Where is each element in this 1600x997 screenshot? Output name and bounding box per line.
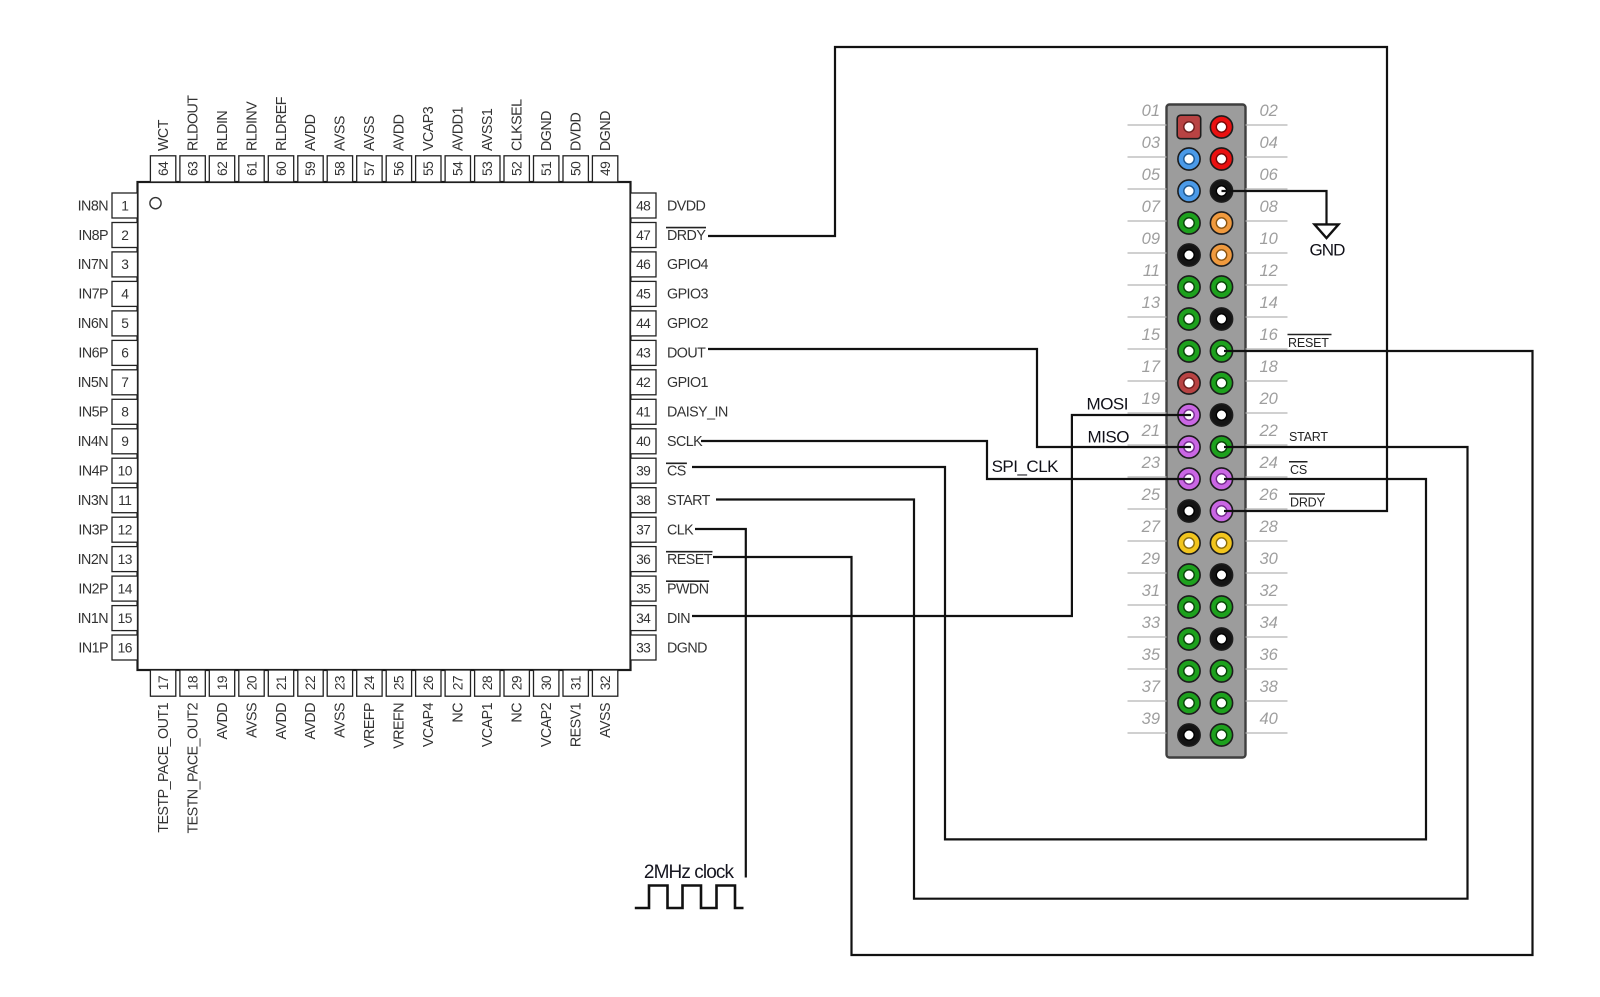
U1 pin 3 box	[112, 252, 138, 277]
svg-text:32: 32	[598, 676, 613, 690]
svg-text:48: 48	[636, 198, 651, 213]
svg-text:AVSS: AVSS	[244, 703, 260, 738]
wire DOUT/MISO: U1 pin 43 to J1 pin 21	[708, 349, 1191, 447]
header pin 27	[1178, 532, 1200, 554]
header pin 33	[1178, 628, 1200, 650]
svg-text:16: 16	[1260, 326, 1279, 344]
svg-text:39: 39	[1142, 710, 1160, 728]
net label DRDY (J1 pin 26)	[1289, 494, 1325, 510]
svg-text:3: 3	[121, 257, 129, 272]
U1 pin 24 box	[357, 670, 382, 696]
svg-text:46: 46	[636, 257, 651, 272]
U1 pin 32 box	[592, 670, 617, 696]
U1 pin 2 box	[112, 223, 138, 248]
svg-text:DGND: DGND	[539, 111, 555, 151]
U1 pin 16 box	[112, 635, 138, 660]
U1 pin 1 box	[112, 193, 138, 218]
U1 pin 27 box	[445, 670, 470, 696]
U1 pin 30 box	[534, 670, 559, 696]
svg-text:GPIO2: GPIO2	[667, 316, 709, 332]
U1 pin-1 indicator circle	[150, 198, 161, 209]
U1 pin 47 label DRDY	[666, 228, 706, 244]
U1 pin 6 box	[112, 340, 138, 365]
svg-text:21: 21	[1141, 422, 1160, 440]
svg-text:29: 29	[510, 675, 525, 690]
U1 pin 28 box	[475, 670, 500, 696]
svg-text:49: 49	[598, 161, 613, 176]
svg-text:RESET: RESET	[667, 552, 713, 568]
svg-text:22: 22	[1259, 422, 1278, 440]
header pin 35	[1178, 660, 1200, 682]
U1 pin 21 box	[268, 670, 293, 696]
header pin 03	[1178, 148, 1200, 170]
header pin 04	[1210, 148, 1232, 170]
header pin 13	[1178, 308, 1200, 330]
svg-text:19: 19	[215, 675, 230, 690]
svg-text:IN1N: IN1N	[78, 611, 109, 627]
svg-text:53: 53	[480, 161, 495, 176]
svg-text:61: 61	[244, 162, 259, 176]
svg-text:AVSS: AVSS	[333, 703, 349, 738]
U1 pin 36 box	[631, 547, 657, 572]
svg-text:IN6P: IN6P	[78, 346, 108, 362]
wire CLK: U1 pin 37 to clock source	[695, 529, 746, 878]
svg-text:7: 7	[121, 375, 128, 390]
svg-text:02: 02	[1260, 102, 1278, 120]
svg-text:DRDY: DRDY	[667, 228, 706, 244]
header pin 14	[1210, 308, 1232, 330]
svg-text:44: 44	[636, 316, 651, 331]
U1 pin 5 box	[112, 311, 138, 336]
svg-text:VREFN: VREFN	[392, 703, 408, 749]
svg-text:AVDD: AVDD	[303, 114, 319, 151]
U1 pin 15 box	[112, 606, 138, 631]
svg-text:AVDD1: AVDD1	[451, 107, 467, 151]
U1 pin 52 box	[504, 156, 529, 182]
svg-text:24: 24	[1259, 454, 1278, 472]
svg-text:38: 38	[1260, 678, 1279, 696]
header pin 17	[1178, 372, 1200, 394]
svg-text:07: 07	[1142, 198, 1161, 216]
svg-text:15: 15	[1142, 326, 1161, 344]
svg-text:DIN: DIN	[667, 611, 690, 627]
svg-text:45: 45	[636, 287, 651, 302]
svg-text:06: 06	[1260, 166, 1279, 184]
U1 pin 55 box	[416, 156, 441, 182]
svg-text:AVSS: AVSS	[362, 116, 378, 151]
svg-text:28: 28	[480, 675, 495, 690]
U1 pin 63 box	[180, 156, 205, 182]
U1 pin 36 label RESET	[666, 552, 713, 568]
U1 pin 53 box	[475, 156, 500, 182]
header pin 19	[1178, 404, 1200, 426]
svg-text:DAISY_IN: DAISY_IN	[667, 405, 728, 421]
svg-text:IN5P: IN5P	[78, 405, 108, 421]
header pin 23	[1178, 468, 1200, 490]
U1 pin 47 box	[631, 223, 657, 248]
svg-text:34: 34	[1260, 614, 1278, 632]
svg-text:RESV1: RESV1	[569, 702, 585, 747]
svg-text:33: 33	[636, 640, 651, 655]
svg-text:AVSS: AVSS	[598, 703, 614, 738]
U1 pin 64 box	[150, 156, 175, 182]
header pin 18	[1210, 372, 1232, 394]
U1 pin 44 box	[631, 311, 657, 336]
U1 pin 11 box	[112, 488, 138, 513]
U1 pin 45 box	[631, 281, 657, 306]
svg-text:32: 32	[1260, 582, 1278, 600]
svg-text:10: 10	[118, 464, 133, 479]
header pin 40	[1210, 724, 1232, 746]
U1 pin 42 box	[631, 370, 657, 395]
U1 pin 19 box	[209, 670, 234, 696]
U1 pin 49 box	[592, 156, 617, 182]
IC U1 ADS1298 body	[138, 182, 631, 670]
svg-text:1: 1	[121, 198, 128, 213]
header pin 21	[1178, 436, 1200, 458]
svg-text:IN8N: IN8N	[78, 198, 109, 214]
svg-text:26: 26	[1259, 486, 1279, 504]
svg-text:40: 40	[1260, 710, 1279, 728]
svg-text:35: 35	[1142, 646, 1161, 664]
svg-text:CS: CS	[667, 464, 686, 480]
svg-text:TESTN_PACE_OUT2: TESTN_PACE_OUT2	[185, 702, 201, 833]
svg-text:AVDD: AVDD	[303, 703, 319, 740]
svg-text:IN3P: IN3P	[78, 523, 108, 539]
svg-text:5: 5	[121, 316, 129, 331]
svg-text:MOSI: MOSI	[1087, 394, 1128, 413]
svg-text:RLDIN: RLDIN	[215, 111, 231, 151]
svg-text:34: 34	[636, 611, 651, 626]
svg-text:NC: NC	[510, 703, 526, 723]
svg-text:GPIO3: GPIO3	[667, 287, 709, 303]
svg-text:IN4N: IN4N	[78, 434, 109, 450]
svg-text:38: 38	[636, 493, 651, 508]
wire START: U1 pin 38 to J1 pin 22	[716, 447, 1468, 899]
header pin 26	[1210, 500, 1232, 522]
svg-text:DVDD: DVDD	[667, 198, 706, 214]
svg-text:05: 05	[1142, 166, 1161, 184]
svg-text:2: 2	[121, 228, 128, 243]
U1 pin 51 box	[534, 156, 559, 182]
header pin 20	[1210, 404, 1232, 426]
U1 pin 58 box	[327, 156, 352, 182]
svg-text:4: 4	[121, 287, 129, 302]
wire DRDY: U1 pin 47 to J1 pin 26	[708, 47, 1387, 511]
svg-text:35: 35	[636, 581, 651, 596]
U1 pin 22 box	[298, 670, 323, 696]
svg-text:DOUT: DOUT	[667, 346, 706, 362]
svg-text:62: 62	[215, 162, 230, 176]
wire RESET: U1 pin 36 to J1 pin 16	[713, 351, 1533, 955]
svg-text:19: 19	[1142, 390, 1160, 408]
svg-text:18: 18	[1260, 358, 1279, 376]
svg-text:25: 25	[1141, 486, 1161, 504]
svg-text:27: 27	[1141, 518, 1161, 536]
svg-text:24: 24	[362, 675, 377, 690]
svg-text:50: 50	[569, 161, 584, 176]
U1 pin 12 box	[112, 517, 138, 542]
header pin 25	[1178, 500, 1200, 522]
svg-text:42: 42	[636, 375, 650, 390]
svg-text:03: 03	[1142, 134, 1161, 152]
svg-text:01: 01	[1142, 102, 1160, 120]
header pin 39	[1178, 724, 1200, 746]
U1 pin 13 box	[112, 547, 138, 572]
header pin 28	[1210, 532, 1232, 554]
svg-text:17: 17	[156, 676, 171, 690]
svg-text:IN6N: IN6N	[78, 316, 109, 332]
svg-text:MISO: MISO	[1088, 427, 1130, 446]
svg-text:DVDD: DVDD	[569, 112, 585, 151]
svg-text:09: 09	[1142, 230, 1160, 248]
svg-text:9: 9	[121, 434, 129, 449]
svg-text:59: 59	[303, 161, 318, 176]
svg-text:36: 36	[1260, 646, 1279, 664]
svg-text:IN1P: IN1P	[78, 640, 108, 656]
header pin 36	[1210, 660, 1232, 682]
svg-text:23: 23	[333, 675, 348, 690]
svg-text:37: 37	[1142, 678, 1161, 696]
svg-text:28: 28	[1259, 518, 1279, 536]
svg-text:AVDD: AVDD	[392, 114, 408, 151]
svg-text:26: 26	[421, 675, 436, 690]
ground symbol GND	[1309, 224, 1345, 259]
svg-text:60: 60	[274, 161, 289, 176]
header pin 30	[1210, 564, 1232, 586]
svg-text:SCLK: SCLK	[667, 434, 703, 450]
svg-text:37: 37	[636, 523, 650, 538]
svg-text:47: 47	[636, 228, 650, 243]
U1 pin 34 box	[631, 606, 657, 631]
svg-text:RESET: RESET	[1288, 336, 1329, 350]
svg-text:CLKSEL: CLKSEL	[510, 99, 526, 151]
U1 pin 23 box	[327, 670, 352, 696]
U1 pin 61 box	[239, 156, 264, 182]
U1 pin 26 box	[416, 670, 441, 696]
svg-text:IN5N: IN5N	[78, 375, 109, 391]
svg-text:11: 11	[1143, 262, 1160, 280]
header pin 09	[1178, 244, 1200, 266]
svg-text:14: 14	[1260, 294, 1278, 312]
svg-text:39: 39	[636, 464, 651, 479]
svg-text:RLDINV: RLDINV	[244, 101, 260, 151]
svg-text:58: 58	[333, 161, 348, 176]
header pin 29	[1178, 564, 1200, 586]
U1 pin 35 box	[631, 576, 657, 601]
svg-text:63: 63	[185, 161, 200, 176]
U1 pin 35 label PWDN	[666, 581, 709, 597]
wire GND: J1 pin 06 to ground	[1222, 191, 1327, 224]
net label CS (J1 pin 24)	[1289, 462, 1308, 477]
svg-text:15: 15	[118, 611, 133, 626]
U1 pin 39 label CS	[666, 463, 687, 479]
svg-text:20: 20	[1259, 390, 1279, 408]
svg-text:SPI_CLK: SPI_CLK	[992, 457, 1060, 476]
header pin 15	[1178, 340, 1200, 362]
header pin 11	[1178, 276, 1200, 298]
svg-text:56: 56	[392, 161, 407, 176]
svg-text:IN2P: IN2P	[78, 581, 108, 597]
U1 pin 18 box	[180, 670, 205, 696]
U1 pin 9 box	[112, 429, 138, 454]
svg-text:12: 12	[118, 523, 132, 538]
svg-text:VCAP2: VCAP2	[539, 702, 555, 747]
svg-text:14: 14	[118, 581, 133, 596]
svg-text:IN3N: IN3N	[78, 493, 109, 509]
svg-text:TESTP_PACE_OUT1: TESTP_PACE_OUT1	[156, 702, 172, 832]
svg-text:27: 27	[451, 676, 466, 690]
header pin 06	[1210, 180, 1232, 202]
svg-text:12: 12	[1260, 262, 1278, 280]
header pin 10	[1210, 244, 1232, 266]
svg-text:40: 40	[636, 434, 651, 449]
svg-text:25: 25	[392, 675, 407, 690]
svg-text:AVDD: AVDD	[215, 703, 231, 740]
svg-text:10: 10	[1260, 230, 1279, 248]
U1 pin 54 box	[445, 156, 470, 182]
svg-text:START: START	[1289, 430, 1328, 444]
wire CS: U1 pin 39 to J1 pin 24	[692, 467, 1426, 839]
svg-text:55: 55	[421, 161, 436, 176]
svg-text:VREFP: VREFP	[362, 703, 378, 748]
svg-text:8: 8	[121, 405, 129, 420]
U1 pin 57 box	[357, 156, 382, 182]
svg-text:17: 17	[1142, 358, 1161, 376]
svg-text:16: 16	[118, 640, 133, 655]
U1 pin 8 box	[112, 399, 138, 424]
U1 pin 33 box	[631, 635, 657, 660]
svg-text:51: 51	[539, 162, 554, 176]
GPIO header J1 body	[1167, 105, 1246, 758]
header pin 16	[1210, 340, 1232, 362]
header pin 24	[1210, 468, 1232, 490]
header pin 37	[1178, 692, 1200, 714]
svg-text:30: 30	[539, 675, 554, 690]
svg-text:57: 57	[362, 162, 377, 176]
net label RESET (J1 pin 16)	[1288, 335, 1332, 351]
svg-text:PWDN: PWDN	[667, 581, 709, 597]
svg-text:33: 33	[1142, 614, 1161, 632]
U1 pin 62 box	[209, 156, 234, 182]
svg-text:20: 20	[244, 675, 259, 690]
U1 pin 59 box	[298, 156, 323, 182]
U1 pin 50 box	[563, 156, 588, 182]
svg-text:IN4P: IN4P	[78, 464, 108, 480]
header pin 31	[1178, 596, 1200, 618]
svg-text:36: 36	[636, 552, 651, 567]
svg-text:64: 64	[156, 161, 171, 176]
svg-text:08: 08	[1260, 198, 1279, 216]
svg-text:CLK: CLK	[667, 523, 694, 539]
svg-text:GPIO1: GPIO1	[667, 375, 709, 391]
svg-text:DGND: DGND	[667, 640, 707, 656]
U1 pin 38 box	[631, 488, 657, 513]
svg-text:2MHz clock: 2MHz clock	[644, 862, 735, 883]
header pin 01	[1177, 115, 1201, 139]
svg-text:29: 29	[1141, 550, 1160, 568]
U1 pin 7 box	[112, 370, 138, 395]
U1 pin 41 box	[631, 399, 657, 424]
svg-text:IN7P: IN7P	[78, 287, 108, 303]
svg-text:GND: GND	[1309, 241, 1345, 260]
U1 pin 14 box	[112, 576, 138, 601]
svg-text:54: 54	[451, 161, 466, 176]
U1 pin 48 box	[631, 193, 657, 218]
header pin 02	[1210, 116, 1232, 138]
clock source waveform	[635, 886, 744, 909]
svg-text:11: 11	[118, 493, 131, 508]
header pin 32	[1210, 596, 1232, 618]
svg-text:CS: CS	[1290, 463, 1307, 477]
svg-text:IN2N: IN2N	[78, 552, 109, 568]
U1 pin 40 box	[631, 429, 657, 454]
svg-text:22: 22	[303, 676, 318, 690]
svg-text:RLDREF: RLDREF	[274, 96, 290, 151]
svg-text:52: 52	[510, 162, 525, 176]
svg-text:AVSS: AVSS	[333, 116, 349, 151]
svg-text:GPIO4: GPIO4	[667, 257, 709, 273]
U1 pin 60 box	[268, 156, 293, 182]
svg-text:21: 21	[274, 676, 289, 690]
U1 pin 25 box	[386, 670, 411, 696]
svg-text:43: 43	[636, 346, 651, 361]
U1 pin 39 box	[631, 458, 657, 483]
U1 pin 43 box	[631, 340, 657, 365]
svg-text:6: 6	[121, 346, 129, 361]
svg-text:IN7N: IN7N	[78, 257, 109, 273]
U1 pin 17 box	[150, 670, 175, 696]
wire DIN/MOSI: U1 pin 34 to J1 pin 19	[692, 415, 1191, 616]
svg-text:23: 23	[1141, 454, 1161, 472]
svg-text:30: 30	[1260, 550, 1279, 568]
header pin 05	[1178, 180, 1200, 202]
header pin 38	[1210, 692, 1232, 714]
svg-text:RLDOUT: RLDOUT	[185, 95, 201, 151]
svg-text:START: START	[667, 493, 711, 509]
svg-text:VCAP1: VCAP1	[480, 702, 496, 747]
svg-text:AVSS1: AVSS1	[480, 108, 496, 151]
svg-text:VCAP4: VCAP4	[421, 702, 437, 747]
svg-text:DRDY: DRDY	[1290, 496, 1325, 510]
U1 pin 46 box	[631, 252, 657, 277]
header pin 34	[1210, 628, 1232, 650]
header pin 22	[1210, 436, 1232, 458]
svg-text:04: 04	[1260, 134, 1278, 152]
svg-text:13: 13	[118, 552, 133, 567]
U1 pin 29 box	[504, 670, 529, 696]
header pin 07	[1178, 212, 1200, 234]
svg-text:AVDD: AVDD	[274, 703, 290, 740]
header pin 12	[1210, 276, 1232, 298]
wire SCLK/SPI_CLK: U1 pin 40 to J1 pin 23	[701, 441, 1191, 479]
svg-text:13: 13	[1142, 294, 1161, 312]
U1 pin 37 box	[631, 517, 657, 542]
svg-text:DGND: DGND	[598, 111, 614, 151]
U1 pin 31 box	[563, 670, 588, 696]
svg-text:31: 31	[569, 676, 584, 690]
svg-text:41: 41	[636, 405, 650, 420]
svg-text:IN8P: IN8P	[78, 228, 108, 244]
header pin 08	[1210, 212, 1232, 234]
svg-text:NC: NC	[451, 703, 467, 723]
svg-text:WCT: WCT	[156, 119, 172, 151]
U1 pin 4 box	[112, 281, 138, 306]
header row separator lines	[1128, 125, 1288, 733]
U1 pin 10 box	[112, 458, 138, 483]
U1 pin 56 box	[386, 156, 411, 182]
svg-text:VCAP3: VCAP3	[421, 106, 437, 151]
